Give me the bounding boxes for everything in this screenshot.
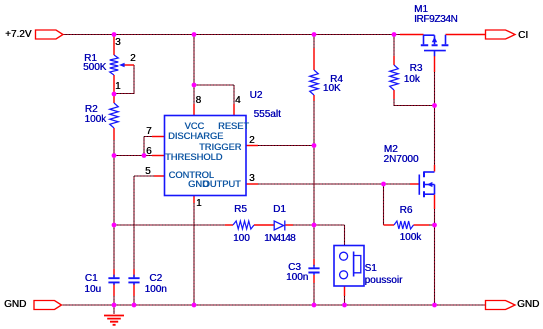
wire pin3 node to M2 gate [384, 183, 411, 185]
wire R6 node to GND rail [434, 225, 436, 305]
pin name CONTROL [169, 170, 214, 180]
label 10K R4 [323, 84, 341, 94]
label 555alt [254, 110, 281, 120]
wire R1 top lead [113, 35, 115, 56]
pin 2 [249, 136, 255, 146]
wire pin3 row [258, 183, 384, 185]
wire pin8 stub [193, 104, 195, 116]
wire pin4 stub [233, 104, 235, 116]
wire M1 source lead [400, 34, 424, 36]
pin name TRIGGER [199, 142, 241, 152]
label C3 [288, 263, 301, 273]
wire S1 bottom lead [344, 287, 346, 297]
pin 1 [196, 199, 202, 209]
label R3 [410, 64, 423, 74]
wire node R2 to pin6 row [113, 140, 115, 156]
wire ground stem [113, 305, 115, 314]
label 100n C3 [286, 273, 308, 283]
pin 8 [196, 96, 202, 106]
wire R4 bottom lead [313, 95, 315, 101]
wire S1 to GND rail [344, 296, 346, 305]
label 100 R5 [233, 234, 250, 244]
port +7.2V [36, 30, 64, 39]
label R1 [84, 54, 97, 64]
resistor R6 100k [394, 221, 413, 229]
pin name DISCHARGE [168, 131, 223, 141]
wire R3 top lead [393, 56, 395, 65]
potentiometer R1 wiper arrow [119, 63, 125, 67]
wire R3 bottom lead [393, 90, 395, 99]
wire pin7 to pin6 link [144, 137, 152, 156]
wire pin2 row [258, 145, 314, 147]
wire R4 top lead [313, 48, 315, 70]
label 100k R6 [400, 233, 422, 243]
wire D1 to S1 corner [293, 225, 345, 246]
wire D1 cathode lead [286, 224, 294, 226]
wire VCC feed to pin8 [193, 85, 195, 104]
wire node to M2 drain [434, 106, 436, 166]
label R4 [330, 75, 343, 85]
label 2N7000 [383, 155, 418, 165]
capacitor C2 100n [128, 275, 139, 285]
label CI [518, 31, 528, 41]
wire R6 to node [429, 224, 435, 226]
wire C2 to GND rail [133, 296, 135, 305]
wire C2 bottom lead [133, 284, 135, 297]
label S1 [365, 264, 377, 274]
pin name OUTPUT [203, 179, 241, 189]
port GND left [34, 301, 62, 310]
wire C3 top lead [313, 259, 315, 266]
label 10k R3 [404, 75, 420, 85]
wire M2 source to R6 node [434, 209, 436, 225]
label 100n C2 [145, 285, 167, 295]
wire R3 feed [393, 35, 395, 57]
label R5 [234, 205, 247, 215]
wire R5 right lead [254, 224, 274, 226]
wire M1 drain to CI [446, 34, 486, 36]
wire R2 top lead [113, 94, 115, 103]
wire R5 row start [114, 224, 225, 226]
label 1N4148 [264, 234, 295, 244]
pin name RESET [218, 121, 249, 131]
pin 3 [249, 174, 255, 184]
wire pin1 stub [193, 196, 195, 204]
wire C1 bottom lead [113, 284, 115, 297]
pin 7 [146, 127, 152, 137]
wire C1 top lead [113, 269, 115, 277]
wire R1 bottom lead [113, 75, 115, 94]
wire M2 gate lead [410, 183, 419, 185]
wire pin5 stub [154, 175, 165, 177]
transistor M1 IRF9Z34N [421, 35, 449, 56]
wire VCC feed down [193, 35, 195, 86]
node 3 [115, 38, 121, 48]
wire top +7.2V rail [63, 34, 401, 36]
wire C3 to GND rail [313, 283, 315, 305]
wire M2 drain lead [434, 165, 436, 172]
label C2 [149, 274, 162, 284]
wire R4 to pin2 row [313, 101, 315, 146]
wire pin5 down to C2 [133, 176, 135, 269]
port GND right [486, 301, 516, 310]
wire C3 bottom lead [313, 275, 315, 283]
wire R6 left lead [384, 224, 395, 226]
label D1 [273, 205, 286, 215]
resistor R4 10K [310, 70, 319, 95]
switch S1 poussoir [334, 246, 364, 287]
resistor R1 (potentiometer, 500K) [110, 55, 119, 75]
wire pin7 stub [152, 136, 165, 138]
wire node pin6 to R5 row [113, 156, 115, 226]
wire R4 feed [313, 35, 315, 49]
label R2 [85, 105, 98, 115]
wire C2 top lead [133, 269, 135, 277]
wire pin3 stub [246, 183, 258, 185]
ground symbol [104, 316, 124, 325]
pin name THRESHOLD [165, 152, 222, 162]
wire pin6 row [114, 155, 152, 157]
wire M1 gate to node [434, 72, 436, 106]
wire M1 gate lead [434, 56, 436, 72]
transistor M2 2N7000 [419, 171, 434, 197]
node 1 [115, 82, 121, 92]
label 10u [84, 285, 101, 295]
label M1 [414, 5, 428, 15]
wire R3 to M1 gate node [394, 99, 435, 106]
wire M2 source lead [434, 195, 436, 210]
node 2 wiper [130, 54, 136, 64]
label 100k R2 [84, 115, 106, 125]
wire bottom GND rail [63, 304, 486, 306]
label +7.2V supply [5, 30, 31, 40]
label GND left [4, 300, 26, 310]
wire pin2 node to R5 row [313, 146, 315, 226]
wire pin5 row [134, 175, 154, 177]
pin 5 [145, 167, 151, 177]
wire R1 wiper [124, 64, 134, 66]
wire node R5 row to C1 [113, 225, 115, 269]
resistor R2 100k [110, 103, 119, 128]
wire R5 node to C3 [313, 225, 315, 259]
wire R5 left lead [225, 224, 233, 226]
pin 6 [146, 147, 152, 157]
pin name GND [188, 179, 209, 189]
op-amp timer U2 555 body [165, 116, 247, 196]
label GND right [517, 300, 539, 310]
wire node down to R6 [383, 184, 385, 225]
capacitor C3 100n [308, 265, 319, 275]
diode D1 1N4148 [274, 221, 285, 231]
label U2 [250, 91, 263, 101]
wire pin1 to GND rail [193, 203, 195, 305]
wire R2 bottom lead [113, 128, 115, 140]
wire pin2 stub [246, 145, 258, 147]
wire R6 right lead [414, 224, 430, 226]
resistor R5 100 [233, 221, 254, 229]
capacitor C1 10u [108, 275, 119, 285]
pin name VCC [185, 121, 205, 131]
label IRF9Z34N [414, 15, 457, 25]
wire wiper loop [114, 65, 134, 94]
wire VCC jog to pin4 [194, 85, 234, 104]
label poussoir [365, 276, 403, 286]
label C1 [85, 274, 98, 284]
pin 4 [235, 96, 241, 106]
label 500K [83, 63, 106, 73]
wire pin6 stub [152, 155, 165, 157]
label M2 [384, 145, 398, 155]
label R6 [400, 206, 413, 216]
resistor R3 10k [390, 65, 399, 90]
wire C1 to GND rail [113, 296, 115, 305]
port CI [486, 30, 516, 39]
